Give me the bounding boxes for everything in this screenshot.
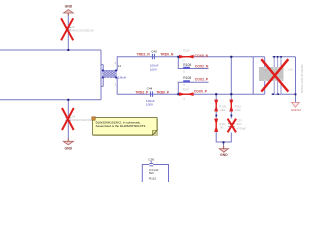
svg-text:R106: R106 <box>183 63 191 67</box>
svg-text:C0402C0G1R5CAV: C0402C0G1R5CAV <box>70 118 95 122</box>
svg-text:COX2_P: COX2_P <box>195 78 209 82</box>
svg-text:100k: 100k <box>219 108 226 112</box>
svg-text:C0402C0G1R5CAV: C0402C0G1R5CAV <box>69 29 94 33</box>
svg-text:0: 0 <box>183 97 185 101</box>
svg-text:5kV: 5kV <box>149 171 155 175</box>
svg-text:COX0_P: COX0_P <box>194 90 208 94</box>
svg-text:GND: GND <box>65 5 73 9</box>
svg-text:4B: 4B <box>264 70 267 73</box>
svg-text:R105: R105 <box>183 48 190 52</box>
svg-text:C36: C36 <box>148 157 154 161</box>
svg-text:GND: GND <box>65 146 73 150</box>
svg-text:1MuH: 1MuH <box>118 76 126 80</box>
svg-text:Assembled is the DLW32NH101XT: Assembled is the DLW32NH101XT2 <box>96 124 146 128</box>
svg-text:GND12: GND12 <box>291 108 301 112</box>
svg-text:TRD0_N: TRD0_N <box>160 52 174 56</box>
svg-text:0: 0 <box>183 59 185 63</box>
svg-text:COX2_N: COX2_N <box>195 64 209 68</box>
svg-text:2: 2 <box>115 83 117 87</box>
svg-text:4700pF: 4700pF <box>237 126 247 130</box>
svg-text:100k: 100k <box>235 108 242 112</box>
svg-text:100V: 100V <box>150 67 158 71</box>
svg-text:GND: GND <box>220 153 228 157</box>
svg-text:1M: 1M <box>219 125 224 129</box>
svg-text:R115: R115 <box>149 177 156 181</box>
svg-text:3: 3 <box>115 61 117 65</box>
svg-text:0: 0 <box>183 83 185 87</box>
svg-text:L1: L1 <box>118 64 122 68</box>
svg-text:BS02F-40M LRT/EN/D: BS02F-40M LRT/EN/D <box>300 65 304 93</box>
svg-text:TRD2_P: TRD2_P <box>135 90 149 94</box>
svg-text:C40: C40 <box>151 49 157 53</box>
svg-text:L10: L10 <box>288 68 293 72</box>
svg-text:100V: 100V <box>146 103 154 107</box>
svg-text:0: 0 <box>183 69 185 73</box>
svg-text:R108: R108 <box>183 76 191 80</box>
svg-text:C44: C44 <box>147 86 153 90</box>
svg-text:TRD2_N: TRD2_N <box>137 52 151 56</box>
svg-text:COX0_N: COX0_N <box>195 54 209 58</box>
svg-text:TRD0_P: TRD0_P <box>156 90 170 94</box>
svg-text:R107: R107 <box>183 87 190 91</box>
